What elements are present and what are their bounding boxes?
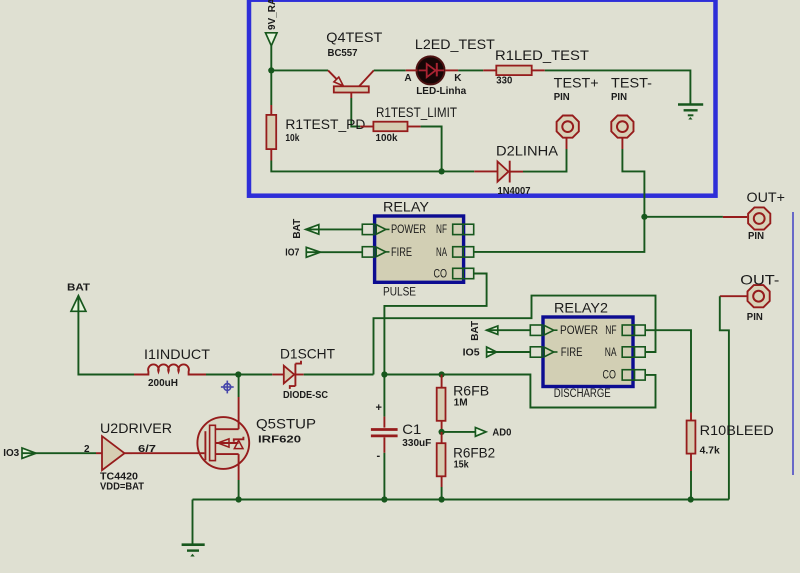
svg-text:Q5STUP: Q5STUP [256, 416, 316, 432]
svg-text:R1LED_TEST: R1LED_TEST [495, 47, 589, 63]
wire Q4 base down [351, 98, 360, 127]
transistor Q4TEST BC557 [326, 29, 382, 98]
svg-text:TEST+: TEST+ [554, 75, 599, 91]
wire R1TEST_LIMIT to junction [421, 127, 442, 172]
svg-text:IO7: IO7 [285, 248, 299, 259]
svg-text:POWER: POWER [560, 325, 598, 337]
pin CO2 [622, 370, 634, 380]
capacitor C1 330uF [371, 375, 431, 500]
svg-text:1N4007: 1N4007 [498, 186, 531, 197]
buffer U2DRIVER TC4420 [84, 420, 172, 493]
svg-text:BC557: BC557 [328, 48, 358, 59]
svg-text:BAT: BAT [292, 219, 303, 239]
node junction 9V [268, 67, 274, 73]
resistor R1TEST_PD 10k [266, 105, 365, 161]
svg-text:330uF: 330uF [402, 438, 431, 449]
node junction main [381, 371, 387, 377]
svg-text:CO: CO [434, 269, 448, 281]
terminal IO7 [285, 247, 320, 258]
connector TEST- PIN [611, 75, 652, 138]
svg-text:PIN: PIN [748, 231, 764, 242]
wire inductor to drain node [206, 374, 238, 376]
wire RELAY2 CO routing to main node [384, 375, 655, 408]
svg-text:BAT: BAT [67, 283, 90, 294]
svg-text:D1SCHT: D1SCHT [280, 346, 335, 362]
wire OUT- to bottom rail [720, 295, 748, 297]
svg-text:9V_RAIL: 9V_RAIL [267, 0, 278, 30]
svg-text:15k: 15k [454, 460, 469, 471]
wire D2 cathode to TEST+ [523, 149, 567, 172]
origin marker [221, 381, 234, 394]
resistor R1LED_TEST 330 [483, 47, 589, 87]
resistor R1TEST_LIMIT 100k [360, 104, 457, 144]
svg-text:NA: NA [436, 247, 447, 259]
wire 9V to junction [270, 46, 272, 71]
svg-text:DISCHARGE: DISCHARGE [554, 388, 611, 400]
node junction R6FB top [439, 371, 445, 377]
svg-text:330: 330 [496, 76, 512, 87]
node junction Q5 source rail [236, 496, 242, 502]
svg-text:I1INDUCT: I1INDUCT [144, 346, 210, 362]
node junction C1 rail [381, 496, 387, 502]
svg-text:PIN: PIN [611, 92, 627, 103]
node junction OUT+ [641, 214, 647, 220]
svg-text:DIODE-SC: DIODE-SC [283, 390, 328, 401]
svg-text:U2DRIVER: U2DRIVER [100, 420, 172, 436]
wire RELAY2 NA routing to D1 cathode [374, 296, 656, 375]
pin NF2 [622, 325, 634, 335]
connector TEST+ PIN [554, 75, 599, 138]
wire D1 cathode to NA2 riser [304, 374, 374, 376]
svg-text:RELAY2: RELAY2 [554, 300, 608, 316]
transistor Q5STUP IRF620 [184, 397, 316, 480]
svg-text:L2ED_TEST: L2ED_TEST [415, 36, 495, 52]
terminal IO5 [463, 347, 497, 359]
pin NA2 [622, 347, 634, 357]
svg-text:10k: 10k [285, 133, 299, 144]
svg-text:IO3: IO3 [3, 448, 19, 459]
wire driver to gate [132, 452, 184, 454]
test subcircuit border box [249, 0, 716, 196]
diode D1SCHT DIODE-SC [272, 346, 335, 402]
pin FIRE2 [530, 347, 542, 357]
svg-text:A: A [404, 73, 411, 84]
svg-text:NF: NF [436, 224, 447, 236]
wire drain node down to Q5 [238, 375, 240, 398]
svg-text:+: + [376, 402, 382, 414]
wire bottom rail [193, 499, 729, 501]
connector OUT- PIN [740, 272, 779, 324]
svg-text:IO5: IO5 [463, 348, 480, 359]
svg-text:D2LINHA: D2LINHA [496, 143, 559, 159]
wire R6FB2 to rail [441, 487, 443, 500]
svg-text:K: K [454, 73, 462, 84]
svg-text:C1: C1 [402, 421, 421, 437]
node junction D2 anode [439, 168, 445, 174]
svg-text:R1TEST_LIMIT: R1TEST_LIMIT [376, 104, 457, 120]
svg-text:CO: CO [603, 369, 616, 381]
svg-text:LED-Linha: LED-Linha [416, 86, 466, 97]
svg-text:R6FB: R6FB [453, 383, 489, 399]
svg-text:IRF620: IRF620 [258, 435, 302, 446]
node junction AD0 [439, 429, 445, 435]
svg-text:1M: 1M [454, 398, 468, 409]
wire LED to R1LED_TEST [458, 69, 483, 71]
svg-text:PULSE: PULSE [383, 287, 416, 299]
wire node to OUT+ pin [644, 216, 723, 218]
wire Q4 collector to LED [374, 69, 406, 71]
wire junction to D2LINHA [442, 170, 475, 172]
blue margin line right [792, 212, 794, 475]
svg-text:PIN: PIN [554, 92, 570, 103]
wire junction to Q4 emitter [271, 69, 328, 71]
node junction R6FB2 rail [439, 496, 445, 502]
wire IO5 to FIRE2 [487, 351, 531, 353]
svg-text:R6FB2: R6FB2 [453, 445, 495, 461]
wire RELAY2 NF to R10BLEED [645, 330, 691, 412]
resistor R6FB 1M [437, 375, 489, 432]
svg-text:FIRE: FIRE [391, 247, 412, 259]
wire IO7 to FIRE [306, 251, 362, 253]
wire RELAY CO routing [384, 274, 486, 375]
relay RELAY (PULSE) [362, 199, 473, 299]
svg-text:R10BLEED: R10BLEED [700, 422, 774, 438]
node junction R10BLEED rail [688, 496, 694, 502]
wire TEST- down to OUT+ node [621, 138, 623, 149]
svg-text:TEST-: TEST- [611, 75, 652, 91]
wire Q5 source to rail [238, 480, 240, 500]
wire R1LED_TEST to ground [545, 70, 691, 103]
ground top right [678, 105, 703, 120]
wire R10BLEED to rail [690, 471, 692, 500]
pin CO [453, 268, 464, 278]
wire AD0 [442, 431, 476, 433]
svg-text:OUT+: OUT+ [747, 189, 786, 205]
svg-text:2: 2 [84, 444, 90, 455]
terminal AD0 [475, 428, 511, 439]
wire drain node to D1 [238, 374, 272, 376]
svg-text:VDD=BAT: VDD=BAT [100, 482, 144, 493]
wire junction down to R1TEST_PD [270, 70, 272, 105]
power terminal BAT (bottom left) [67, 283, 90, 312]
connector OUT+ PIN [747, 189, 786, 242]
pin NF [453, 224, 464, 234]
svg-text:Q4TEST: Q4TEST [326, 29, 382, 45]
terminal IO3 [3, 448, 36, 459]
LED L2ED_TEST [404, 36, 495, 97]
relay RELAY2 (DISCHARGE) [530, 300, 645, 400]
wire node down to RELAY NA [474, 217, 645, 252]
svg-text:4.7k: 4.7k [700, 446, 720, 457]
power terminal 9V_RAIL [266, 0, 279, 46]
wire BAT down to inductor [78, 296, 134, 375]
wire BAT2 to POWER2 [487, 329, 531, 331]
svg-text:R1TEST_PD: R1TEST_PD [285, 116, 365, 132]
power terminal BAT (relay2) [470, 321, 498, 341]
svg-text:-: - [377, 450, 381, 462]
svg-text:NF: NF [605, 325, 616, 337]
pin NA [453, 247, 464, 257]
svg-text:NA: NA [605, 347, 617, 359]
wire IO3 to driver [22, 452, 96, 454]
pin POWER2 [530, 325, 542, 335]
resistor R6FB2 15k [437, 432, 496, 487]
ground bottom [182, 500, 205, 557]
resistor R10BLEED 4.7k [687, 413, 774, 472]
svg-text:BAT: BAT [470, 321, 481, 341]
svg-text:RELAY: RELAY [383, 199, 430, 215]
wire BAT to POWER [306, 228, 363, 230]
node junction drain [235, 371, 241, 377]
svg-text:FIRE: FIRE [561, 347, 583, 359]
inductor I1INDUCT 200uH [134, 346, 210, 389]
pin POWER [362, 224, 374, 234]
svg-text:POWER: POWER [391, 224, 426, 236]
power terminal BAT (relay) [292, 219, 319, 239]
svg-text:PIN: PIN [747, 312, 763, 323]
svg-text:100k: 100k [376, 133, 398, 144]
pin FIRE [362, 247, 374, 257]
svg-text:OUT-: OUT- [740, 272, 779, 288]
wire R1TEST_PD bottom to D2 junction [271, 161, 441, 172]
svg-text:AD0: AD0 [492, 428, 511, 439]
diode D2LINHA 1N4007 [474, 143, 558, 198]
svg-text:200uH: 200uH [148, 378, 178, 389]
